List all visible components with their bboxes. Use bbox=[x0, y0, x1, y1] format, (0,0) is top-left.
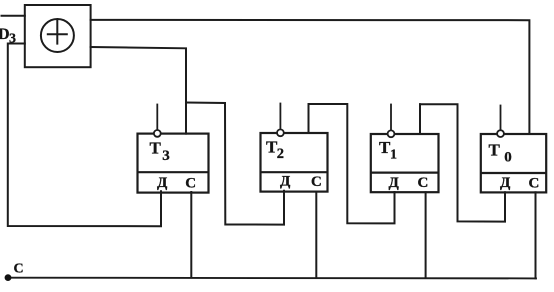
svg-text:С: С bbox=[185, 175, 196, 191]
svg-text:2: 2 bbox=[277, 146, 284, 162]
svg-text:Т: Т bbox=[150, 138, 162, 157]
svg-text:Д: Д bbox=[157, 175, 168, 191]
svg-text:1: 1 bbox=[390, 148, 397, 163]
svg-text:3: 3 bbox=[162, 148, 170, 164]
svg-text:Д: Д bbox=[389, 175, 400, 191]
svg-text:С: С bbox=[418, 175, 429, 191]
svg-text:Т: Т bbox=[489, 141, 501, 160]
svg-text:С: С bbox=[311, 174, 322, 190]
svg-text:3: 3 bbox=[9, 32, 16, 47]
svg-text:Д: Д bbox=[280, 174, 291, 190]
svg-text:0: 0 bbox=[504, 150, 512, 166]
svg-text:С: С bbox=[529, 175, 540, 191]
svg-text:Д: Д bbox=[500, 175, 511, 191]
svg-text:С: С bbox=[14, 262, 24, 277]
